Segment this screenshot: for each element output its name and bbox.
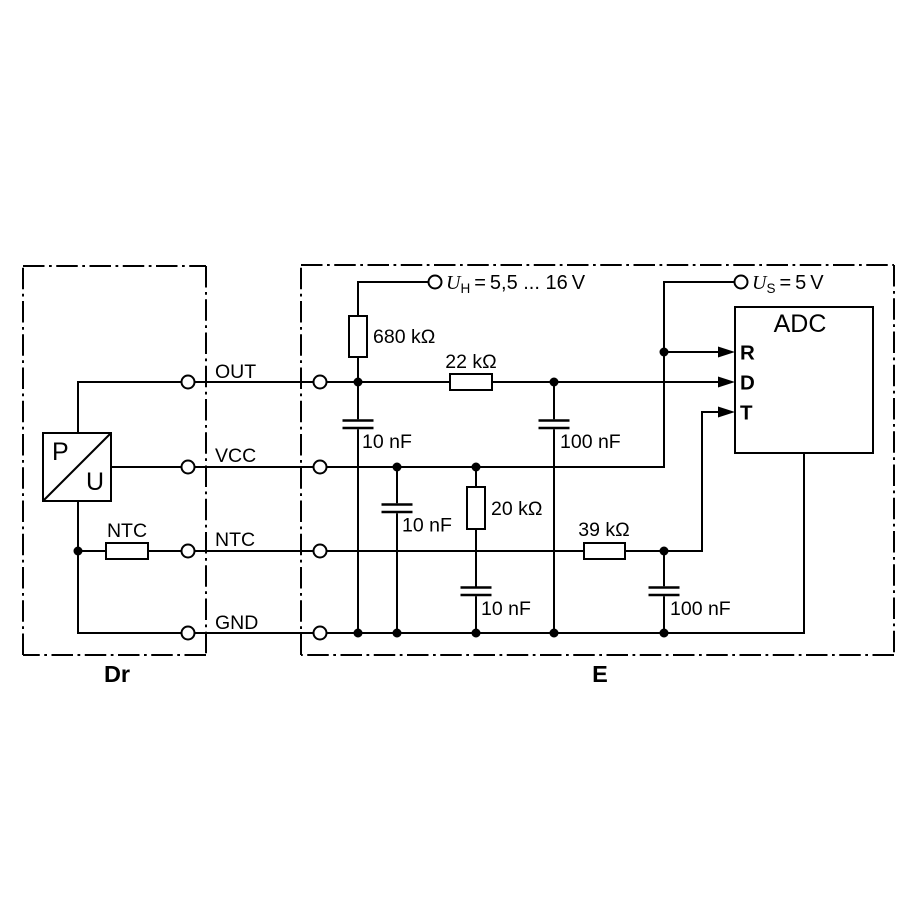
svg-text:GND: GND: [215, 612, 258, 634]
junction GND/C4: [472, 629, 481, 638]
resistor NTC (horizontal, in Dr box): [106, 543, 148, 559]
arrow into pin R: [718, 347, 735, 358]
capacitor C5 100nF (NTC node to GND): [649, 551, 680, 633]
terminal circle NTC (E side): [314, 545, 327, 558]
junction GND/C5: [660, 629, 669, 638]
junction US riser/R branch: [660, 348, 669, 357]
junction sensor/NTC: [74, 547, 83, 556]
svg-text:OUT: OUT: [215, 361, 256, 383]
terminal circle UH supply: [429, 276, 442, 289]
svg-text:39 kΩ: 39 kΩ: [578, 519, 629, 541]
terminal circle GND (E side): [314, 627, 327, 640]
wire OUT net (sensor top to D arrow): [78, 382, 718, 433]
junction GND/C3: [393, 629, 402, 638]
junction GND/C2: [550, 629, 559, 638]
wire VCC net (sensor to US vertical riser): [111, 282, 741, 467]
svg-text:NTC: NTC: [107, 520, 147, 542]
svg-text:20 kΩ: 20 kΩ: [491, 498, 542, 520]
svg-text:100 nF: 100 nF: [670, 598, 731, 620]
resistor R3 20k (vertical, VCC to C4): [467, 467, 485, 587]
svg-text:22 kΩ: 22 kΩ: [445, 351, 496, 373]
wire NTC net (sensor junction to T arrow): [78, 412, 718, 551]
junction VCC/20k: [472, 463, 481, 472]
svg-text:NTC: NTC: [215, 529, 255, 551]
svg-text:Dr: Dr: [104, 661, 130, 687]
wire R branch (US riser to R arrow): [664, 351, 718, 353]
svg-text:US = 5 V: US = 5 V: [752, 272, 824, 296]
wire UH branch (node A up to UH terminal): [358, 282, 435, 382]
resistor R2 22k (horizontal): [450, 374, 492, 390]
resistor R1 680k (vertical): [349, 316, 367, 357]
junction node B (22k/C2): [550, 378, 559, 387]
svg-text:U: U: [86, 468, 104, 496]
junction VCC/C3: [393, 463, 402, 472]
svg-text:R: R: [740, 342, 755, 365]
junction NTC/39k/C5: [660, 547, 669, 556]
terminal circle OUT (E side): [314, 376, 327, 389]
svg-text:10 nF: 10 nF: [362, 431, 412, 453]
svg-text:680 kΩ: 680 kΩ: [373, 326, 435, 348]
terminal circle NTC (Dr side): [182, 545, 195, 558]
svg-text:VCC: VCC: [215, 445, 256, 467]
enclosure Dr dashed box: [23, 266, 206, 655]
arrow into pin T: [718, 407, 735, 418]
svg-text:100 nF: 100 nF: [560, 431, 621, 453]
junction GND/C1: [354, 629, 363, 638]
capacitor C2 100nF (node B to GND): [539, 382, 570, 633]
capacitor C3 10nF (VCC to GND): [382, 467, 413, 633]
terminal circle VCC (Dr side): [182, 461, 195, 474]
svg-text:10 nF: 10 nF: [402, 515, 452, 537]
svg-text:10 nF: 10 nF: [481, 598, 531, 620]
svg-text:P: P: [52, 438, 69, 466]
svg-text:E: E: [592, 661, 608, 687]
terminal circle US supply: [735, 276, 748, 289]
svg-text:ADC: ADC: [774, 310, 827, 338]
enclosure E dashed box: [301, 265, 894, 655]
svg-text:D: D: [740, 372, 755, 395]
svg-text:T: T: [740, 402, 753, 425]
terminal circle OUT (Dr side): [182, 376, 195, 389]
arrow into pin D: [718, 377, 735, 388]
terminal circle GND (Dr side): [182, 627, 195, 640]
resistor R4 39k (horizontal): [584, 543, 625, 559]
wire GND net (sensor down, ground rail, ADC bottom pin): [78, 453, 804, 633]
capacitor C4 10nF (below 20k to GND): [461, 588, 492, 634]
ADC block U2: [735, 307, 873, 453]
terminal circle VCC (E side): [314, 461, 327, 474]
capacitor C1 10nF (node A to GND): [343, 382, 374, 633]
junction node A (OUT/680k/C1): [354, 378, 363, 387]
sensor block P/U: [43, 433, 111, 501]
